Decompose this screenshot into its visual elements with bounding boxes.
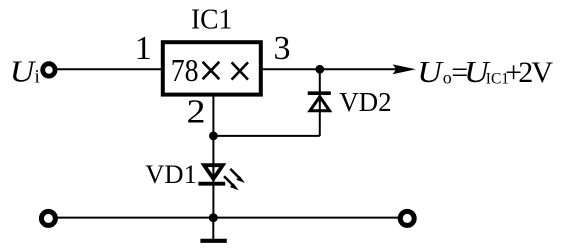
wire input: Ui terminal to IC1 pin 1 [49, 68, 162, 70]
LED VD1 emission arrow 1 [230, 169, 245, 183]
diode VD2 cathode bar [308, 91, 331, 95]
svg-text:V: V [531, 56, 553, 89]
value mark x1 [203, 62, 220, 79]
ground stub [212, 218, 214, 239]
ground bar [200, 239, 226, 243]
node ground junction [209, 213, 218, 222]
node pin2/VD2 junction [209, 132, 218, 141]
LED VD1 emission arrow 2 [224, 176, 239, 190]
wire VD2 branch down [319, 69, 321, 136]
diode VD2 triangle [310, 97, 330, 111]
svg-text:U: U [10, 55, 37, 89]
wire bottom rail [48, 217, 407, 219]
svg-text:3: 3 [274, 30, 291, 67]
wire output: IC1 pin 3 to arrow [261, 68, 396, 70]
terminal bottom-right (open circle) [400, 211, 414, 225]
svg-text:VD1: VD1 [145, 159, 197, 189]
svg-text:2: 2 [186, 92, 205, 130]
svg-text:IC1: IC1 [191, 4, 232, 36]
terminal input (open circle) [43, 64, 55, 76]
svg-text:VD2: VD2 [339, 87, 392, 117]
value mark x2 [232, 62, 248, 79]
wire VD2 bottom to pin2 node [213, 135, 319, 137]
LED VD1 triangle [204, 165, 223, 179]
terminal bottom-left (open circle) [41, 211, 55, 225]
svg-text:i: i [35, 67, 40, 88]
svg-text:78: 78 [171, 53, 199, 88]
svg-text:1: 1 [135, 30, 152, 67]
LED VD1 cathode bar [198, 182, 225, 186]
IC1 regulator box 78xx [163, 42, 261, 94]
arrow output [393, 64, 416, 74]
svg-text:U: U [417, 56, 444, 90]
wire pin 2 column [212, 95, 214, 218]
node output junction [315, 65, 324, 74]
